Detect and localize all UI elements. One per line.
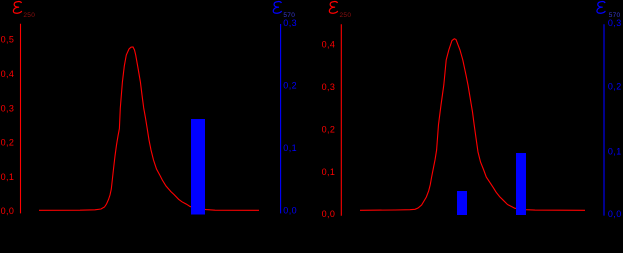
svg-text:0,1: 0,1 [322,167,336,177]
plot 2 blue bar tall [516,153,526,215]
svg-text:0,3: 0,3 [1,103,15,113]
plot 1 left axis title epsilon_250 [13,2,21,14]
plot 1 red curve [39,47,259,210]
svg-text:0,5: 0,5 [1,35,15,45]
svg-text:250: 250 [340,12,352,19]
plot 2 left red axis line [340,24,342,216]
plot 1 left red tick labels [1,35,15,217]
svg-text:570: 570 [609,12,621,19]
plot 2 red curve [360,39,585,211]
plot 1 right blue tick labels [283,18,297,216]
plot 1 left red axis line [20,24,22,214]
svg-text:570: 570 [283,12,295,19]
svg-text:0,0: 0,0 [1,206,15,216]
plot 1 right blue axis line [280,24,282,213]
svg-text:0,4: 0,4 [1,69,15,79]
plot 2 right blue tick labels [608,18,622,219]
plot 2 right blue axis line [603,24,605,215]
svg-text:0,0: 0,0 [608,209,622,219]
svg-text:0,0: 0,0 [283,206,297,216]
plot 1 blue bar [191,119,205,215]
svg-text:0,4: 0,4 [322,40,336,50]
plot 1 right axis title epsilon_570 [273,2,281,14]
plot 2 blue bar small [457,191,467,215]
plot 2 left axis title epsilon_250 [329,2,337,14]
svg-text:0,2: 0,2 [322,125,336,135]
plot 2 right axis title epsilon_570 [597,2,605,14]
svg-text:0,2: 0,2 [1,138,15,148]
svg-text:0,0: 0,0 [322,209,336,219]
svg-text:0,2: 0,2 [283,80,297,90]
plot 2 left red tick labels [322,40,336,220]
svg-text:0,1: 0,1 [1,172,15,182]
svg-text:0,3: 0,3 [608,18,622,28]
svg-text:0,3: 0,3 [283,18,297,28]
svg-text:0,3: 0,3 [322,82,336,92]
svg-text:0,2: 0,2 [608,82,622,92]
svg-text:250: 250 [23,12,35,19]
svg-text:0,1: 0,1 [608,146,622,156]
svg-text:0,1: 0,1 [283,143,297,153]
